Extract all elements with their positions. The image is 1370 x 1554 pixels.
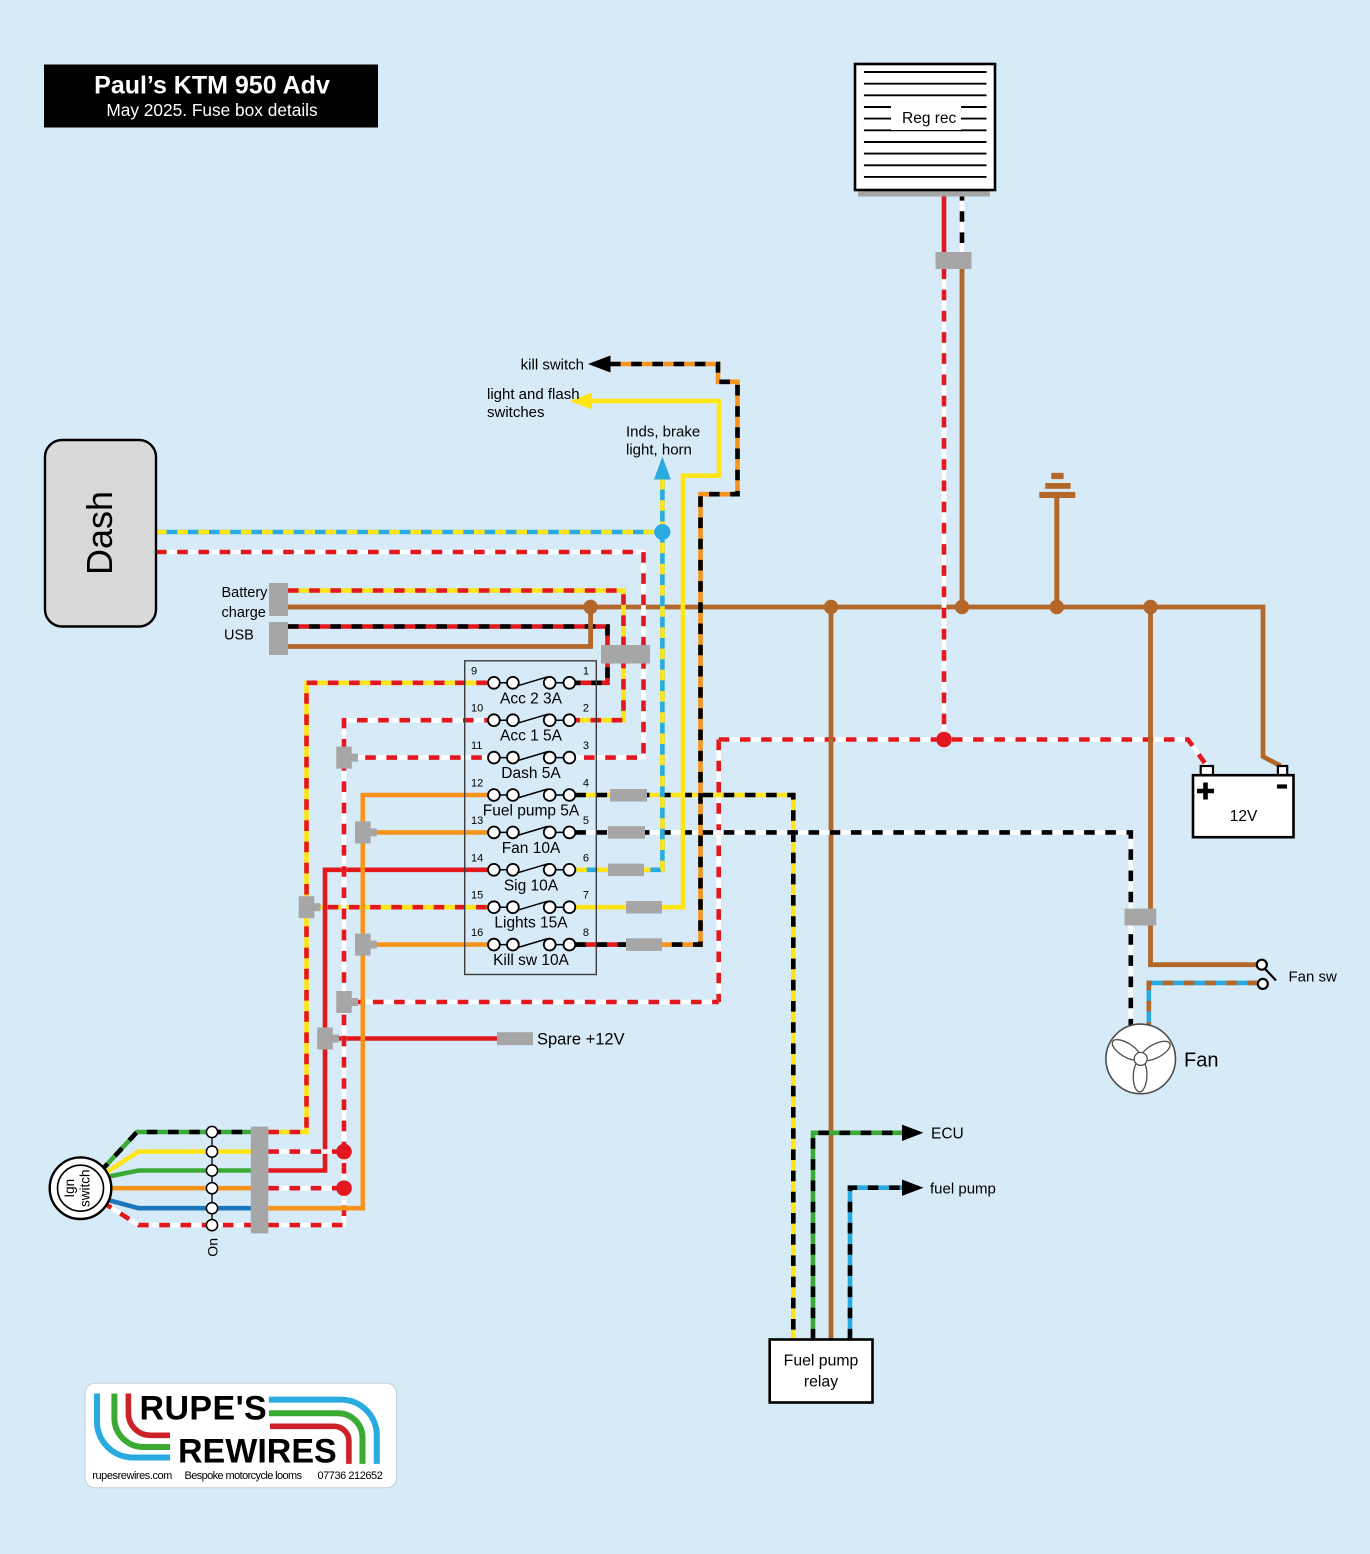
svg-text:ECU: ECU — [931, 1126, 964, 1143]
fuse Lights 15A (pins 15/7) — [471, 890, 589, 932]
wire: black/red fuse 8 pigtail — [575, 942, 632, 947]
svg-text:Fan: Fan — [1184, 1050, 1218, 1072]
svg-text:Fan sw: Fan sw — [1289, 969, 1338, 986]
svg-text:RUPE'S: RUPE'S — [140, 1390, 268, 1428]
connector: loom above fuse box — [601, 645, 650, 664]
component: battery 12V — [1193, 766, 1294, 837]
component: fuse box outline — [465, 661, 597, 975]
wire: black/white reg rec output — [960, 190, 965, 253]
node: blue junction dash/inds — [654, 524, 670, 540]
svg-text:light, horn: light, horn — [626, 442, 692, 459]
svg-text:4: 4 — [583, 778, 589, 790]
wire: blue/yellow Dash to junction — [156, 530, 662, 535]
svg-text:Bespoke motorcycle looms: Bespoke motorcycle looms — [184, 1470, 302, 1482]
svg-text:Dash: Dash — [79, 491, 120, 575]
component: fuel pump relay — [770, 1340, 873, 1403]
svg-text:Battery: Battery — [222, 585, 269, 601]
connector: T-tap fuse 13 — [355, 821, 377, 843]
node: brown bus junction at x=1150.5 — [1143, 600, 1157, 614]
node: brown bus junction at x=1056.8 — [1050, 600, 1064, 614]
svg-text:rupesrewires.com: rupesrewires.com — [92, 1470, 172, 1482]
connector: fan loom — [1125, 909, 1157, 926]
svg-text:USB: USB — [224, 628, 254, 644]
svg-text:7: 7 — [583, 890, 589, 902]
svg-text:Acc 1 5A: Acc 1 5A — [500, 728, 563, 745]
connector: fuse 7 inline — [626, 901, 662, 914]
connector: fuse 5 inline — [608, 826, 645, 839]
svg-text:Sig 10A: Sig 10A — [504, 877, 559, 894]
svg-text:9: 9 — [471, 665, 477, 677]
svg-text:kill switch: kill switch — [521, 357, 584, 374]
wire: red/white Dash feed to fuse 3 — [156, 552, 644, 758]
svg-text:12: 12 — [471, 778, 483, 790]
svg-text:Acc 2 3A: Acc 2 3A — [500, 690, 563, 707]
svg-text:12V: 12V — [1230, 808, 1258, 825]
connector: T-tap battery feed — [336, 991, 358, 1013]
connector: fuse 6 inline — [608, 864, 644, 877]
connector: T-tap fuse 16 — [355, 934, 377, 956]
component: fan switch — [1257, 960, 1276, 989]
svg-text:Kill sw 10A: Kill sw 10A — [493, 952, 569, 969]
svg-text:Paul’s KTM 950 Adv: Paul’s KTM 950 Adv — [94, 72, 330, 100]
wire: ignition red/white row F — [102, 1202, 251, 1225]
svg-text:3: 3 — [583, 740, 589, 752]
node: ignition connector pin chain — [211, 1132, 213, 1231]
svg-text:On: On — [205, 1238, 221, 1257]
wire: red/white battery positive feed to battery + terminal — [719, 740, 1207, 766]
connector: fuse 8 inline — [626, 938, 662, 951]
fuse Dash 5A (pins 11/3) — [471, 740, 589, 782]
svg-text:Ign: Ign — [62, 1179, 77, 1198]
component: fan — [1106, 1024, 1176, 1094]
wire: red/yellow riser fuse9 to ignition row A — [268, 683, 488, 1132]
connector: ignition switch block — [251, 1127, 268, 1234]
wire: ignition blue row E — [103, 1199, 251, 1209]
svg-text:8: 8 — [583, 927, 589, 939]
connector: fuse 4 inline — [610, 789, 647, 802]
svg-text:15: 15 — [471, 890, 483, 902]
svg-text:switches: switches — [487, 404, 545, 421]
connector: T-tap spare +12V — [317, 1028, 339, 1050]
svg-text:Fuel pump 5A: Fuel pump 5A — [483, 803, 580, 820]
wire: red/white ignition row D stub — [268, 1186, 344, 1191]
wire: brown drop to fan switch — [1151, 607, 1257, 965]
wire: yellow lights/flash wire from fuse 7 — [575, 401, 719, 907]
connector: USB — [269, 622, 288, 655]
component: ignition switch — [50, 1157, 112, 1219]
svg-text:07736 212652: 07736 212652 — [317, 1470, 382, 1482]
component: Dash — [45, 440, 156, 627]
wire: orange riser fuse12 to ignition row E — [268, 795, 488, 1208]
svg-text:5: 5 — [583, 815, 589, 827]
svg-text:Lights 15A: Lights 15A — [494, 915, 568, 932]
wire: brown reg rec to ground bus — [960, 269, 965, 608]
svg-text:16: 16 — [471, 927, 483, 939]
wire: blue/black relay to fuel pump — [850, 1188, 903, 1340]
wire: ignition yellow row B — [102, 1152, 251, 1175]
svg-text:light and flash: light and flash — [487, 386, 580, 403]
arrow: ECU (black, right) — [902, 1125, 924, 1141]
fuse Fan 10A (pins 13/5) — [471, 815, 589, 857]
svg-text:Dash 5A: Dash 5A — [501, 765, 561, 782]
svg-text:Fuel pump: Fuel pump — [784, 1353, 859, 1370]
title box — [44, 65, 378, 128]
svg-text:14: 14 — [471, 852, 483, 864]
connector: T-tap fuse 15 — [299, 896, 321, 918]
svg-text:May 2025. Fuse box details: May 2025. Fuse box details — [106, 100, 318, 120]
svg-text:charge: charge — [222, 605, 266, 621]
wire: red/white battery positive feed (vertical near fuse box) — [716, 740, 721, 1003]
svg-text:Spare +12V: Spare +12V — [537, 1031, 625, 1049]
svg-text:REWIRES: REWIRES — [178, 1433, 337, 1471]
svg-text:10: 10 — [471, 703, 483, 715]
fuse Acc 2 3A (pins 9/1) — [471, 665, 589, 707]
node: red junction ignition row D — [336, 1180, 352, 1196]
wire: green/black relay to ECU — [813, 1133, 903, 1340]
wire: red/yellow battery charge feed to fuse 2 — [288, 591, 624, 721]
svg-text:fuel pump: fuel pump — [930, 1181, 996, 1198]
svg-text:13: 13 — [471, 815, 483, 827]
wire: red/white branch to fuse 11 — [344, 755, 488, 760]
arrow: light and flash switches (yellow, left) — [570, 393, 592, 410]
svg-text:2: 2 — [583, 703, 589, 715]
wire: black/red USB feed to fuse 1 — [288, 627, 608, 683]
wire: orange branch to fuse 16 — [363, 942, 488, 947]
fuse Kill sw 10A (pins 16/8) — [471, 927, 589, 969]
node: brown bus junction at x=831 — [824, 600, 838, 614]
fuse Fuel pump 5A (pins 12/4) — [471, 778, 589, 820]
wire: red spare +12V branch — [325, 1036, 497, 1041]
wire: red riser fuse14 to ignition row C — [268, 870, 488, 1171]
wire: ignition green row C — [103, 1171, 251, 1178]
svg-text:switch: switch — [78, 1169, 93, 1207]
svg-text:Fan 10A: Fan 10A — [502, 840, 561, 857]
wire: brown drop to fuel pump relay — [829, 607, 834, 1340]
node: brown bus junction at x=590.6 — [583, 600, 597, 614]
svg-text:Inds, brake: Inds, brake — [626, 424, 700, 441]
arrow: kill switch (black, left) — [588, 356, 611, 373]
wire: ignition green/black row A — [101, 1132, 252, 1172]
arrow: fuel pump (black, right) — [902, 1180, 924, 1196]
connector: reg rec base strip — [858, 190, 990, 197]
connector: reg rec — [936, 252, 972, 269]
fuse Acc 1 5A (pins 10/2) — [471, 703, 589, 745]
wire: red/white ignition row B stub — [268, 1149, 344, 1154]
svg-text:11: 11 — [471, 740, 482, 752]
arrow: inds brake light horn (blue, up) — [654, 457, 671, 480]
wire: blue/yellow inds wire from fuse 6 — [575, 479, 662, 870]
component: Reg rec — [855, 64, 995, 190]
wire: red/white reg rec to battery feed junction — [942, 269, 947, 740]
svg-text:1: 1 — [583, 665, 589, 677]
node: brown bus junction at x=962 — [955, 600, 969, 614]
ground symbol — [1039, 473, 1075, 498]
svg-text:6: 6 — [583, 852, 589, 864]
wire: red/white branch from ignition riser to battery feed — [352, 1000, 719, 1005]
svg-text:relay: relay — [804, 1374, 838, 1391]
wire: brown battery charge to bus — [288, 605, 591, 610]
wire: blue/brown fan switch to fan — [1149, 983, 1258, 1026]
wire: red reg rec output — [942, 190, 947, 253]
logo: Rupe's Rewires — [85, 1383, 397, 1488]
ground symbol stem — [1054, 496, 1059, 607]
connector: spare +12V terminator — [497, 1032, 533, 1045]
wire: red/yellow branch to fuse 15 — [307, 905, 489, 910]
svg-text:Reg rec: Reg rec — [902, 110, 957, 127]
wire: yellow/black fuse 4 to fuel pump relay — [575, 795, 793, 1340]
wire: brown USB to bus junction — [288, 607, 591, 647]
wire: red/white riser fuse10 to ignition row F — [268, 720, 488, 1225]
connector: battery charge — [269, 583, 288, 616]
wire: black/white fuse 5 to fan — [575, 832, 1131, 1026]
wire: main brown ground bus from battery-charge connector to battery negative — [288, 607, 1281, 766]
wire: orange/black kill switch wire from fuse 8 — [610, 364, 738, 945]
fuse Sig 10A (pins 14/6) — [471, 852, 589, 894]
node: red junction reg-rec / battery feed — [936, 732, 952, 748]
wire: ignition orange row D — [106, 1186, 251, 1191]
wire: orange branch to fuse 13 — [363, 830, 488, 835]
node: red junction ignition row B — [336, 1144, 352, 1160]
connector: T-tap fuse 11 — [336, 747, 358, 769]
